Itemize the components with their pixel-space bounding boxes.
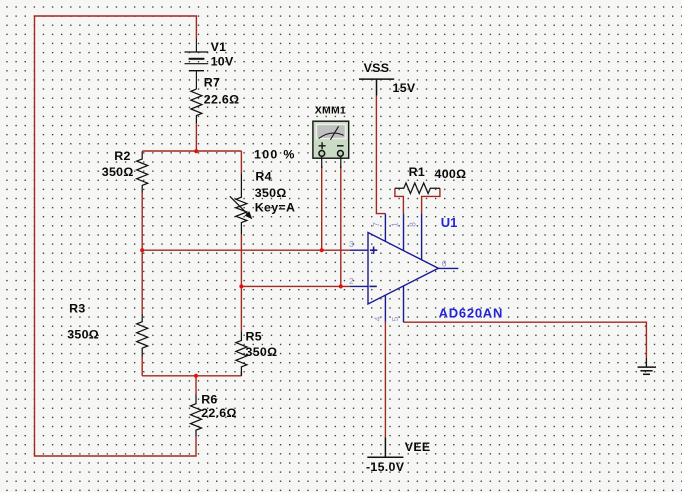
XMM1 left terminal (319, 151, 325, 157)
VEE power symbol (367, 437, 403, 457)
svg-text:5: 5 (390, 316, 400, 321)
op-amp U1 triangle (368, 233, 438, 305)
pin 5 stub (403, 286, 405, 322)
wire: bridge down to R6 (195, 376, 197, 394)
pin 4 stub (384, 295, 386, 322)
pin 1 stub (403, 214, 405, 251)
svg-text:3: 3 (349, 239, 354, 249)
wire: plus input bus to pin 3 (142, 249, 350, 251)
junction node bridge/R6 (194, 374, 198, 378)
battery V1 (185, 39, 209, 90)
ground symbol (638, 358, 656, 374)
op-amp minus input mark (369, 285, 376, 287)
wire: R5 bottom stub (240, 372, 242, 376)
wire: minus bus down to R5 (240, 286, 242, 331)
resistor R1 (395, 183, 440, 194)
pin 7 stub (384, 214, 386, 242)
svg-text:V1: V1 (211, 40, 227, 54)
XMM1 meter arc (319, 133, 344, 139)
wire: bottom bridge R3-R5 (142, 375, 241, 377)
svg-text:AD620AN: AD620AN (439, 305, 504, 320)
multimeter XMM1 body (313, 121, 349, 158)
svg-text:1: 1 (390, 222, 400, 227)
svg-text:350Ω: 350Ω (102, 165, 134, 179)
VSS power symbol (359, 79, 394, 96)
resistor R2 (137, 151, 148, 192)
wire: pin 4 down to VEE (384, 322, 386, 438)
wire: XMM1 left terminal down (321, 166, 323, 250)
pin 6 stub (438, 267, 458, 269)
svg-text:22.6Ω: 22.6Ω (201, 406, 237, 420)
svg-text:R1: R1 (409, 165, 425, 179)
wire: R1 right lead to pin 8 (422, 188, 440, 213)
junction node R4/R5 on minus bus (239, 284, 243, 288)
wire: XMM1 right terminal down (340, 166, 342, 286)
svg-text:VSS: VSS (364, 61, 390, 75)
junction node at V1/R7 bus (194, 149, 198, 153)
svg-text:100 %: 100 % (254, 147, 296, 161)
svg-text:Key=A: Key=A (255, 201, 295, 215)
wire: R7 bottom to node (195, 123, 197, 151)
op-amp plus input mark (370, 247, 377, 254)
wire: R1 left lead to pin 1 (395, 188, 404, 213)
wire: junction down to R3 (141, 250, 143, 314)
pin 3 stub (350, 249, 368, 251)
svg-text:R3: R3 (69, 302, 85, 316)
svg-text:R4: R4 (255, 170, 271, 184)
XMM1 display white frame (316, 124, 347, 140)
pin 8 stub (421, 214, 423, 260)
pin 2 stub (350, 285, 368, 287)
svg-text:350Ω: 350Ω (246, 345, 278, 359)
XMM1 plus mark (319, 142, 326, 149)
XMM1 needle (330, 126, 338, 140)
XMM1 display (317, 125, 345, 138)
wire: R3 bottom to bridge (141, 357, 143, 376)
svg-text:10V: 10V (211, 55, 234, 69)
wire: outer loop left/top/bottom (35, 16, 197, 456)
svg-text:2: 2 (349, 276, 354, 286)
svg-text:-15.0V: -15.0V (366, 460, 405, 474)
svg-text:VEE: VEE (405, 440, 431, 454)
potentiometer R4 arrow (230, 196, 249, 215)
svg-text:R6: R6 (201, 393, 217, 407)
XMM1 black terminal leads (322, 154, 341, 168)
resistor R6 (191, 394, 202, 436)
svg-text:350Ω: 350Ω (67, 328, 99, 342)
XMM1 right terminal (338, 151, 344, 157)
resistor R5 (236, 331, 247, 376)
wire: R4 top lead connection (240, 151, 242, 173)
svg-text:U1: U1 (441, 215, 458, 230)
junction node R2/R3/plus bus (140, 248, 144, 252)
svg-text:R2: R2 (114, 149, 130, 163)
svg-text:15V: 15V (393, 81, 416, 95)
junction node XMM1 right on minus bus (339, 284, 343, 288)
svg-text:6: 6 (442, 258, 447, 268)
svg-text:400Ω: 400Ω (435, 167, 467, 181)
svg-text:8: 8 (408, 222, 418, 227)
wire: VSS rail down to pin 7 (376, 96, 385, 214)
svg-text:7: 7 (371, 222, 381, 227)
resistor R7 (191, 89, 202, 123)
resistor R3 (137, 314, 148, 357)
wire: R4 bottom down to minus bus (240, 235, 242, 287)
svg-text:22.6Ω: 22.6Ω (204, 93, 240, 107)
svg-text:R5: R5 (246, 329, 262, 343)
svg-text:350Ω: 350Ω (255, 186, 287, 200)
potentiometer R4 (236, 173, 247, 234)
junction node XMM1 left on plus bus (320, 248, 324, 252)
wire: minus input bus to pin 2 (241, 285, 349, 287)
XMM1 minus mark (337, 145, 344, 147)
wire: horizontal bus at node between R2 and R4 (142, 150, 241, 152)
wire: pin 5 out to ground (404, 322, 647, 358)
wire: R2 bottom down to plus bus (141, 193, 143, 251)
svg-text:XMM1: XMM1 (315, 105, 346, 117)
svg-text:R7: R7 (204, 76, 220, 90)
svg-text:4: 4 (372, 316, 382, 321)
